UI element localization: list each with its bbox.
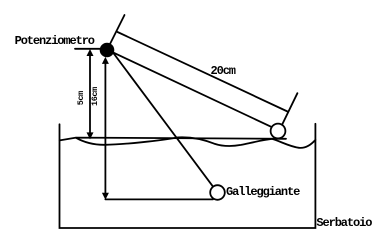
arrowhead 16cm up [102, 57, 109, 64]
float Galleggiante [210, 185, 225, 200]
water surface wavy line [76, 137, 315, 148]
float at water surface [271, 124, 286, 139]
dimension extension tick at float end [280, 93, 297, 129]
dimension line 16cm [104, 61, 106, 195]
svg-text:16cm: 16cm [90, 87, 100, 106]
svg-text:Serbatoio: Serbatoio [316, 216, 372, 230]
arrowhead 16cm down [102, 193, 109, 200]
arrowhead 5cm down [87, 132, 94, 139]
water surface straight line [60, 138, 286, 141]
wire: link from pivot to Galleggiante float [107, 45, 218, 194]
svg-text:5cm: 5cm [76, 91, 86, 105]
svg-text:Potenziometro: Potenziometro [15, 34, 95, 48]
arrowhead 5cm up [87, 49, 94, 56]
svg-text:Galleggiante: Galleggiante [226, 185, 300, 199]
tank Serbatoio outline [60, 124, 316, 228]
dimension extension line at pivot [107, 15, 125, 50]
float level reference line [105, 198, 213, 200]
pivot reference line [75, 48, 107, 50]
dimension line 20cm [118, 32, 288, 112]
wire: rod from pivot to float [107, 50, 278, 130]
svg-text:20cm: 20cm [211, 64, 236, 78]
pivot Potenziometro knob [100, 43, 115, 58]
dimension line 5cm [89, 54, 91, 135]
